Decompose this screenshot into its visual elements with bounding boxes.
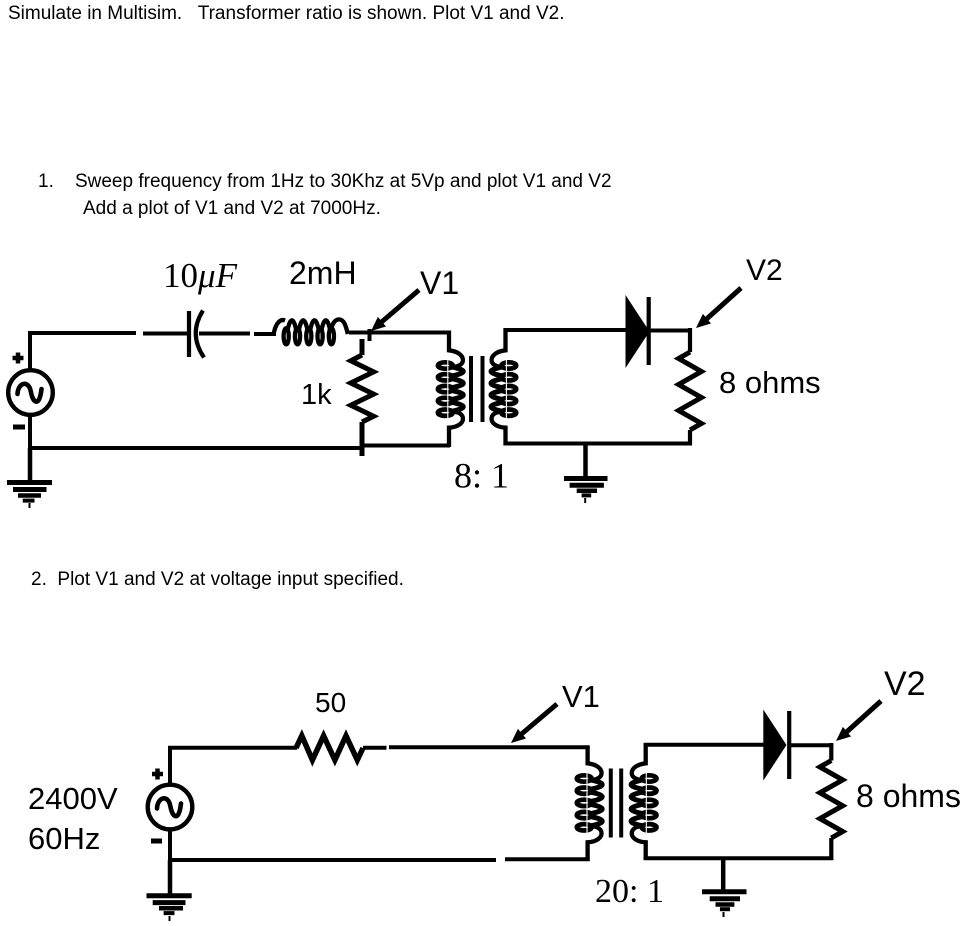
V1 arrow (circuit 2) xyxy=(511,704,557,743)
svg-text:2mH: 2mH xyxy=(289,255,357,291)
title text xyxy=(8,3,565,25)
resistor 1k xyxy=(351,339,374,456)
svg-text:8 ohms: 8 ohms xyxy=(719,365,821,400)
resistor 8 ohms (circuit 1) xyxy=(679,328,702,445)
V2 arrow (circuit 1) xyxy=(696,288,741,328)
diode D2 xyxy=(763,710,789,781)
ground (left, circuit 2) xyxy=(147,860,192,921)
wire secondary loop circuit 2 xyxy=(644,745,834,859)
svg-text:50: 50 xyxy=(315,687,346,718)
V1 arrow (circuit 1) xyxy=(371,290,419,331)
ground (secondary, circuit 2) xyxy=(702,858,747,917)
svg-text:10μF: 10μF xyxy=(163,256,238,295)
ground (secondary, circuit 1) xyxy=(564,444,608,504)
item 2 text xyxy=(31,569,404,591)
ground (left, circuit 1) xyxy=(7,448,52,508)
transformer T2 secondary winding xyxy=(631,743,656,860)
AC source VS1 xyxy=(8,353,53,428)
wire secondary loop circuit 1 xyxy=(504,330,693,444)
transformer T2 primary winding xyxy=(577,746,602,861)
svg-text:V2: V2 xyxy=(746,254,783,287)
svg-text:V2: V2 xyxy=(884,665,926,703)
resistor 50 xyxy=(296,736,363,760)
svg-text:2400V: 2400V xyxy=(28,781,118,816)
item 1 line 2 xyxy=(83,198,381,220)
AC source VS2 xyxy=(148,769,193,842)
transformer T1 secondary winding xyxy=(491,328,516,446)
svg-text:20: 1: 20: 1 xyxy=(595,873,664,910)
wire top rail circuit 1 xyxy=(28,329,450,450)
transformer T2 core xyxy=(611,769,621,838)
svg-text:8 ohms: 8 ohms xyxy=(856,778,961,814)
diode D1 xyxy=(626,295,650,368)
svg-text:1k: 1k xyxy=(301,379,332,411)
svg-text:V1: V1 xyxy=(562,679,600,714)
V2 arrow (circuit 2) xyxy=(836,701,881,741)
svg-text:60Hz: 60Hz xyxy=(28,821,100,856)
transformer T1 core xyxy=(471,356,483,422)
item 1 line 1 xyxy=(38,171,612,193)
svg-text:8: 1: 8: 1 xyxy=(454,456,509,496)
wires circuit 2 xyxy=(168,746,590,862)
resistor 8 ohms (circuit 2) xyxy=(820,743,843,860)
svg-text:V1: V1 xyxy=(420,265,459,301)
inductor L1 2mH xyxy=(274,319,348,344)
transformer T1 primary winding xyxy=(438,331,463,448)
capacitor C1 10uF xyxy=(189,311,204,358)
